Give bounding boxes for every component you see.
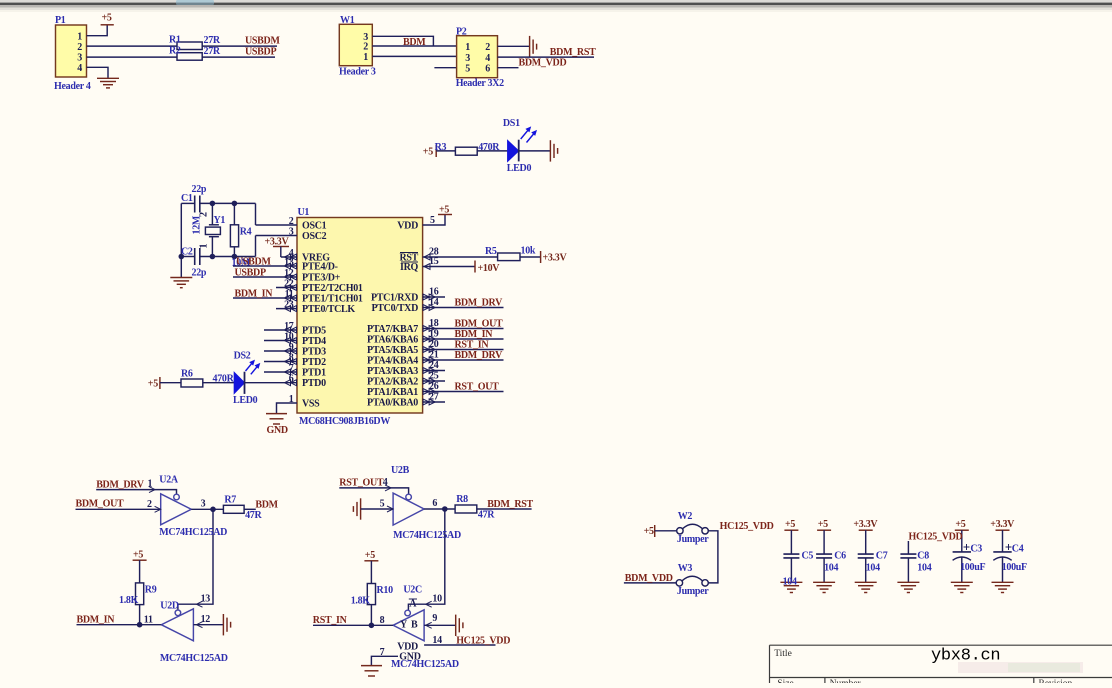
svg-text:Y: Y <box>400 620 408 631</box>
wire R2 to USBDP <box>202 56 275 58</box>
wire stub U1 pin10 PTD4 <box>264 340 297 342</box>
svg-text:LED0: LED0 <box>233 395 258 406</box>
svg-text:12M: 12M <box>192 215 203 234</box>
svg-text:R8: R8 <box>456 494 468 505</box>
capacitor C4 polarized <box>996 529 1010 531</box>
node bottom-crystal <box>210 254 216 260</box>
wire U1 pin4 VREG <box>281 256 297 258</box>
ground rotated (DS1) <box>550 140 557 161</box>
wire U1 pin1 VSS to GND <box>277 403 298 414</box>
svg-text:VDD: VDD <box>397 221 418 232</box>
wire R8 to BDM_RST <box>477 508 532 510</box>
SECTION-JUMPERS <box>624 524 718 586</box>
wire R3 to LED DS1 <box>477 150 508 152</box>
svg-text:+5: +5 <box>423 147 433 158</box>
svg-text:+10V: +10V <box>478 263 501 274</box>
SECTION-U2BC <box>313 485 532 676</box>
ground rotated (U2C pin9) <box>456 615 463 636</box>
resistor R2 <box>177 53 202 61</box>
wire stub U1 pin22 PTE2 <box>276 287 297 289</box>
svg-text:1.8K: 1.8K <box>119 595 139 606</box>
wire RST_IN to U2C pin8 <box>313 624 393 626</box>
LED DS1 light arrows <box>521 126 537 142</box>
svg-text:PTD2: PTD2 <box>302 357 326 368</box>
power +3.3V (VREG) <box>273 246 289 248</box>
svg-text:BDM_DRV: BDM_DRV <box>96 480 145 491</box>
node R9-BDM_IN <box>137 622 143 628</box>
svg-text:22p: 22p <box>192 268 207 279</box>
svg-text:+3.3V: +3.3V <box>265 237 290 248</box>
ground GND under VSS <box>266 414 287 424</box>
capacitor C1 <box>194 196 196 213</box>
wire BDM_IN to U2D pin11 <box>77 624 162 626</box>
buffer U2A triangle <box>161 494 192 525</box>
wire P2 pin6 BDM_VDD <box>498 67 519 69</box>
wire OSC1 drop <box>255 203 257 225</box>
svg-text:1: 1 <box>363 52 368 63</box>
svg-text:3: 3 <box>77 53 82 64</box>
wire C2 left to rail <box>181 256 194 258</box>
buffer U2C bubble <box>405 610 411 616</box>
svg-text:PTA6/KBA6: PTA6/KBA6 <box>367 335 418 346</box>
window top bar <box>0 0 1112 3</box>
wire stub P2 pin5 <box>434 67 456 69</box>
LED DS1 <box>508 141 519 161</box>
svg-text:6: 6 <box>485 63 490 74</box>
ground (C6) <box>813 582 835 592</box>
resistor R3 <box>455 147 477 155</box>
wire W1 pin3 BDM net <box>372 36 433 46</box>
svg-text:PTA4/KBA4: PTA4/KBA4 <box>367 356 418 367</box>
wire R6 to LED DS2 <box>203 382 235 384</box>
svg-text:OSC2: OSC2 <box>302 231 327 242</box>
arrow pin12 <box>196 622 202 628</box>
svg-text:Size: Size <box>777 679 793 683</box>
svg-text:PTC1/RXD: PTC1/RXD <box>371 293 418 304</box>
wire R7 to BDM <box>244 508 256 510</box>
svg-text:U2B: U2B <box>391 465 410 476</box>
ground (P1) <box>97 78 119 88</box>
power +10V tick <box>474 261 476 273</box>
resistor R1 <box>177 42 202 50</box>
svg-text:PTE0/TCLK: PTE0/TCLK <box>302 304 355 315</box>
svg-text:+5: +5 <box>785 519 795 530</box>
svg-text:7: 7 <box>380 647 385 658</box>
svg-text:Revision: Revision <box>1039 679 1073 683</box>
node bottom-R4 <box>232 254 238 260</box>
svg-text:2: 2 <box>289 216 294 227</box>
wire node down to U2D pin13 <box>178 509 213 610</box>
wire bottom rail <box>200 256 256 258</box>
svg-text:22p: 22p <box>192 184 207 195</box>
jumper W2 <box>677 528 683 534</box>
wire U1 pin28 RST to R5 <box>423 256 498 258</box>
power +5 tick (R6) <box>159 377 161 389</box>
resistor R7 <box>223 505 244 513</box>
svg-text:1.8K: 1.8K <box>351 596 371 607</box>
svg-text:R7: R7 <box>224 495 236 506</box>
node rail-C2 <box>179 254 185 260</box>
svg-text:MC74HC125AD: MC74HC125AD <box>160 653 228 664</box>
resistor R8 <box>455 505 477 513</box>
svg-text:BDM_OUT: BDM_OUT <box>455 319 504 330</box>
wire P1 pin2 to R1 <box>87 45 178 47</box>
svg-text:BDM_RST: BDM_RST <box>487 499 533 510</box>
svg-text:W1: W1 <box>340 15 355 26</box>
ground (U2C pin7) <box>361 666 382 676</box>
wire stub U1 pin23 PTE0 <box>276 308 297 310</box>
resistor R6 <box>181 379 203 387</box>
svg-text:104: 104 <box>866 563 880 574</box>
U1 pin arrows right <box>424 254 430 260</box>
svg-text:RST_OUT: RST_OUT <box>339 478 384 489</box>
svg-text:PTA5/KBA5: PTA5/KBA5 <box>367 345 418 356</box>
svg-text:BDM_VDD: BDM_VDD <box>519 58 567 69</box>
node pin6 <box>442 506 448 512</box>
svg-text:C5: C5 <box>802 551 814 562</box>
svg-text:+5: +5 <box>818 519 828 530</box>
buffer U2C triangle <box>393 610 424 641</box>
wire LED DS1 to ground <box>519 150 551 152</box>
svg-text:C6: C6 <box>834 551 846 562</box>
svg-text:MC74HC125AD: MC74HC125AD <box>159 527 227 538</box>
ground (C4) <box>992 582 1014 592</box>
svg-text:U1: U1 <box>298 207 310 218</box>
wire U2D pin12 to ground <box>193 624 223 626</box>
svg-text:+5: +5 <box>644 526 654 537</box>
SECTION-XTAL <box>170 196 289 288</box>
wire U2B pin6 out to R8 <box>424 508 455 510</box>
svg-text:1: 1 <box>77 32 82 43</box>
SECTION-TITLEBLOCK <box>770 645 1112 688</box>
wire U1 pin14 PTC0 BDM_DRV <box>423 307 504 309</box>
wire U1 pin6 PTD0 from DS2 <box>245 382 298 384</box>
svg-text:B: B <box>411 620 418 631</box>
wire P1 pin4 to ground <box>87 67 109 78</box>
wire U1 pin11 PTE1 BDM_IN <box>233 297 297 299</box>
wire W2 to HC125_VDD / down <box>708 531 718 583</box>
ground (C3) <box>951 582 973 592</box>
svg-text:5: 5 <box>380 499 385 510</box>
svg-text:3: 3 <box>289 227 294 238</box>
LED DS2 light arrows <box>246 360 261 375</box>
svg-text:1: 1 <box>148 479 153 490</box>
svg-text:14: 14 <box>432 635 442 646</box>
wire stub U1 pin24 PTA3 <box>423 370 445 372</box>
wire left rail to ground <box>180 203 182 277</box>
resistor R5 <box>498 253 520 261</box>
arrow pin13 <box>196 601 202 607</box>
wire stub U1 pin7 PTD1 <box>264 371 297 373</box>
wire U2C pin14 HC125_VDD <box>424 644 495 646</box>
U2C enable A-bar <box>409 598 417 600</box>
svg-text:Y1: Y1 <box>214 215 226 226</box>
wire BDM_DRV to U2A enable pin1 <box>96 490 176 495</box>
wire BDM_VDD to W3 <box>624 582 676 584</box>
power +5 tick (R3) <box>435 145 437 157</box>
svg-text:BDM_OUT: BDM_OUT <box>76 499 125 510</box>
svg-text:Header 3X2: Header 3X2 <box>456 78 504 89</box>
SECTION-P1 <box>56 25 278 88</box>
ground (C5) <box>780 582 802 592</box>
svg-text:DS2: DS2 <box>234 351 251 362</box>
svg-text:VSS: VSS <box>302 399 320 410</box>
svg-text:+5: +5 <box>439 205 449 216</box>
arrow pin10 <box>426 601 432 607</box>
svg-text:R4: R4 <box>240 227 252 238</box>
svg-text:BDM_VDD: BDM_VDD <box>625 573 673 584</box>
wire +5 to R3 <box>436 150 455 152</box>
svg-text:100uF: 100uF <box>960 562 985 573</box>
capacitor C6 <box>817 529 831 531</box>
svg-text:470R: 470R <box>213 373 235 384</box>
svg-text:1: 1 <box>289 394 294 405</box>
jumper W3 <box>676 580 682 586</box>
svg-text:A: A <box>409 599 417 610</box>
arrow pin1 <box>149 487 155 493</box>
buffer U2B bubble <box>406 494 412 500</box>
wire U1 pin19 PTA6 BDM_IN <box>423 338 504 340</box>
wire U1 pin2 OSC1 <box>256 224 298 226</box>
capacitor C7 <box>859 529 873 531</box>
ground rotated (U2D pin12) <box>223 614 230 635</box>
svg-text:Number: Number <box>830 679 862 683</box>
svg-text:3: 3 <box>465 53 470 64</box>
svg-text:P1: P1 <box>55 15 66 26</box>
svg-text:HC125_VDD: HC125_VDD <box>909 532 963 543</box>
svg-text:47R: 47R <box>245 510 262 521</box>
svg-text:BDM_RST: BDM_RST <box>550 47 596 58</box>
SECTION-W1P2 <box>339 24 594 77</box>
svg-text:27R: 27R <box>204 46 221 57</box>
node top-R4 <box>232 201 238 207</box>
watermark haze <box>958 662 1083 673</box>
svg-text:104: 104 <box>824 563 838 574</box>
buffer U2B triangle <box>393 493 424 525</box>
buffer U2A bubble <box>174 494 180 500</box>
svg-text:USBDM: USBDM <box>236 257 271 268</box>
svg-text:PTC0/TXD: PTC0/TXD <box>372 303 419 314</box>
svg-text:100uF: 100uF <box>1002 562 1027 573</box>
svg-text:2: 2 <box>147 499 152 510</box>
svg-text:1: 1 <box>199 244 210 249</box>
wire stub U1 pin16 PTC1 <box>423 296 445 298</box>
svg-text:Header 3: Header 3 <box>339 67 376 78</box>
svg-text:USBDP: USBDP <box>245 47 276 58</box>
svg-text:PTE2/T2CH01: PTE2/T2CH01 <box>302 283 363 294</box>
svg-text:C8: C8 <box>917 551 929 562</box>
arrow pin4 <box>385 485 391 491</box>
svg-text:R9: R9 <box>145 585 157 596</box>
wire U2C pin7 to ground <box>371 656 398 665</box>
wire P2 pin2 to ground <box>498 45 530 47</box>
svg-text:Header 4: Header 4 <box>54 81 91 92</box>
svg-text:C4: C4 <box>1012 544 1024 555</box>
svg-text:+3.3V: +3.3V <box>990 519 1015 530</box>
wire U1 pin13 PTE4 USBDM <box>233 265 297 267</box>
wire stub U1 pin17 PTD5 <box>264 329 297 331</box>
capacitor C5 <box>784 529 798 531</box>
capacitor C8 <box>907 541 909 554</box>
wire R5 to +3.3V <box>520 256 541 258</box>
connector P2 Header 3X2 <box>457 36 498 78</box>
svg-text:BDM: BDM <box>255 500 278 511</box>
svg-text:U2C: U2C <box>403 585 422 596</box>
wire +5 to W2 <box>655 530 677 532</box>
node R10-RST_IN <box>369 623 375 629</box>
svg-text:+3.3V: +3.3V <box>853 519 878 530</box>
svg-text:PTD5: PTD5 <box>302 326 326 337</box>
svg-text:C2: C2 <box>181 247 193 258</box>
wire top rail <box>200 202 256 204</box>
wire U1 pin3 OSC2 <box>256 235 298 237</box>
svg-text:MC68HC908JB16DW: MC68HC908JB16DW <box>299 416 390 427</box>
overline IRQ <box>401 261 418 263</box>
svg-text:PTE3/D+: PTE3/D+ <box>302 273 341 284</box>
window tab <box>176 0 214 5</box>
svg-text:BDM_IN: BDM_IN <box>77 615 116 626</box>
svg-text:10k: 10k <box>521 246 536 257</box>
svg-text:R6: R6 <box>181 369 193 380</box>
svg-text:6: 6 <box>432 498 437 509</box>
wire U2C pin9 to ground <box>424 624 456 626</box>
svg-text:R10: R10 <box>377 585 394 596</box>
svg-text:OSC1: OSC1 <box>302 221 327 232</box>
U1 pin arrows left <box>285 254 297 260</box>
svg-text:PTA7/KBA7: PTA7/KBA7 <box>367 324 418 335</box>
svg-text:C7: C7 <box>876 551 888 562</box>
crystal Y1 <box>211 203 213 224</box>
svg-text:DS1: DS1 <box>503 118 520 129</box>
svg-text:PTD0: PTD0 <box>302 378 326 389</box>
svg-text:Title: Title <box>774 649 792 659</box>
svg-text:PTD1: PTD1 <box>302 368 326 379</box>
arrow pin9 <box>426 622 432 628</box>
svg-text:12: 12 <box>201 614 211 625</box>
title block border <box>770 645 1112 683</box>
wire ground to U2B pin5 <box>361 508 394 510</box>
svg-text:RST_IN: RST_IN <box>313 615 348 626</box>
svg-text:RST_OUT: RST_OUT <box>455 382 500 393</box>
svg-text:3: 3 <box>201 499 206 510</box>
svg-text:C3: C3 <box>970 544 982 555</box>
svg-text:Jumper: Jumper <box>677 586 709 597</box>
svg-text:47R: 47R <box>478 510 495 521</box>
svg-text:HC125_VDD: HC125_VDD <box>720 521 774 532</box>
wire U1 pin12 PTE3 USBDP <box>233 276 297 278</box>
svg-text:+5: +5 <box>365 550 375 561</box>
svg-text:+5: +5 <box>102 13 112 24</box>
svg-text:5: 5 <box>465 63 470 74</box>
svg-text:BDM: BDM <box>403 37 426 48</box>
svg-text:R1: R1 <box>169 35 181 46</box>
ground (C8) <box>897 582 919 592</box>
svg-text:R3: R3 <box>435 142 447 153</box>
SECTION-DS1 <box>436 126 557 161</box>
power +5 (R9) <box>133 559 147 561</box>
svg-text:U2A: U2A <box>159 475 179 486</box>
svg-text:PTD4: PTD4 <box>302 336 326 347</box>
svg-text:11: 11 <box>144 615 153 626</box>
wire stub U1 pin27 PTA0 <box>423 401 445 403</box>
svg-text:+3.3V: +3.3V <box>543 253 568 264</box>
svg-text:USBDP: USBDP <box>235 268 266 279</box>
wire U2A pin3 out to R7 <box>191 508 223 510</box>
svg-text:IRQ: IRQ <box>400 262 419 273</box>
power +5 (P1) <box>101 24 114 26</box>
resistor R9 <box>139 560 141 583</box>
svg-text:PTE1/T1CH01: PTE1/T1CH01 <box>302 294 363 305</box>
wire OSC2 rise <box>255 236 257 257</box>
wire node down to U2C pin10 <box>408 509 444 610</box>
svg-text:104: 104 <box>783 577 797 588</box>
svg-text:+5: +5 <box>148 378 158 389</box>
wire W1 pin2 to P2 pin1 <box>372 45 456 47</box>
wire U1 pin21 PTA4 BDM_DRV <box>423 359 504 361</box>
svg-text:470R: 470R <box>478 142 500 153</box>
LED DS2 <box>234 373 244 393</box>
svg-text:Jumper: Jumper <box>677 534 709 545</box>
ground (C7) <box>855 582 877 592</box>
svg-text:BDM_IN: BDM_IN <box>235 289 274 300</box>
wire stub U1 pin9 PTD3 <box>264 350 297 352</box>
buffer U2D bubble <box>175 610 181 616</box>
svg-text:13: 13 <box>201 594 211 605</box>
power +5 (VDD) <box>438 214 452 216</box>
IC U1 MC68HC908JB16DW body <box>297 218 423 414</box>
capacitor C3 polarized <box>955 529 969 531</box>
svg-text:HC125_VDD: HC125_VDD <box>456 636 510 647</box>
node pin3 <box>210 507 216 513</box>
svg-text:W3: W3 <box>678 563 693 574</box>
svg-text:MC74HC125AD: MC74HC125AD <box>393 530 461 541</box>
svg-text:PTA3/KBA3: PTA3/KBA3 <box>367 366 418 377</box>
ground rotated (U2B pin5) <box>353 498 360 519</box>
svg-text:GND: GND <box>267 425 288 436</box>
svg-text:C1: C1 <box>181 193 193 204</box>
wire C1 left to rail <box>181 202 194 204</box>
svg-text:U2D: U2D <box>160 601 179 612</box>
arrow pin5 <box>387 506 393 512</box>
svg-text:+5: +5 <box>955 519 965 530</box>
svg-text:+5: +5 <box>133 550 143 561</box>
svg-text:2: 2 <box>199 212 210 217</box>
power +5 tick (W2) <box>654 525 656 537</box>
svg-text:4: 4 <box>485 53 490 64</box>
svg-text:P2: P2 <box>456 27 467 38</box>
svg-text:104: 104 <box>917 563 931 574</box>
plus sign C3 <box>964 544 970 550</box>
SECTION-DS2 <box>160 360 260 394</box>
wire stub U1 pin25 PTA2 <box>423 380 445 382</box>
svg-text:10: 10 <box>432 594 442 605</box>
svg-text:PTA1/KBA1: PTA1/KBA1 <box>367 387 418 398</box>
svg-text:R5: R5 <box>485 246 497 257</box>
svg-text:9: 9 <box>432 613 437 624</box>
svg-text:USBDM: USBDM <box>245 36 280 47</box>
svg-text:PTD3: PTD3 <box>302 347 326 358</box>
power +3.3V tick (R5) <box>540 251 542 263</box>
resistor R4 <box>233 203 235 224</box>
wire U1 pin15 IRQ to +10V <box>423 266 475 268</box>
wire U1 pin20 PTA5 RST_IN <box>423 349 504 351</box>
svg-text:BDM_DRV: BDM_DRV <box>455 298 504 309</box>
wire P1 pin1 to +5 <box>87 25 108 36</box>
connector W1 Header 3 <box>339 24 372 65</box>
wire U1 pin5 VDD to +5 <box>423 215 445 226</box>
svg-text:27R: 27R <box>204 35 221 46</box>
svg-text:BDM_IN: BDM_IN <box>455 329 494 340</box>
